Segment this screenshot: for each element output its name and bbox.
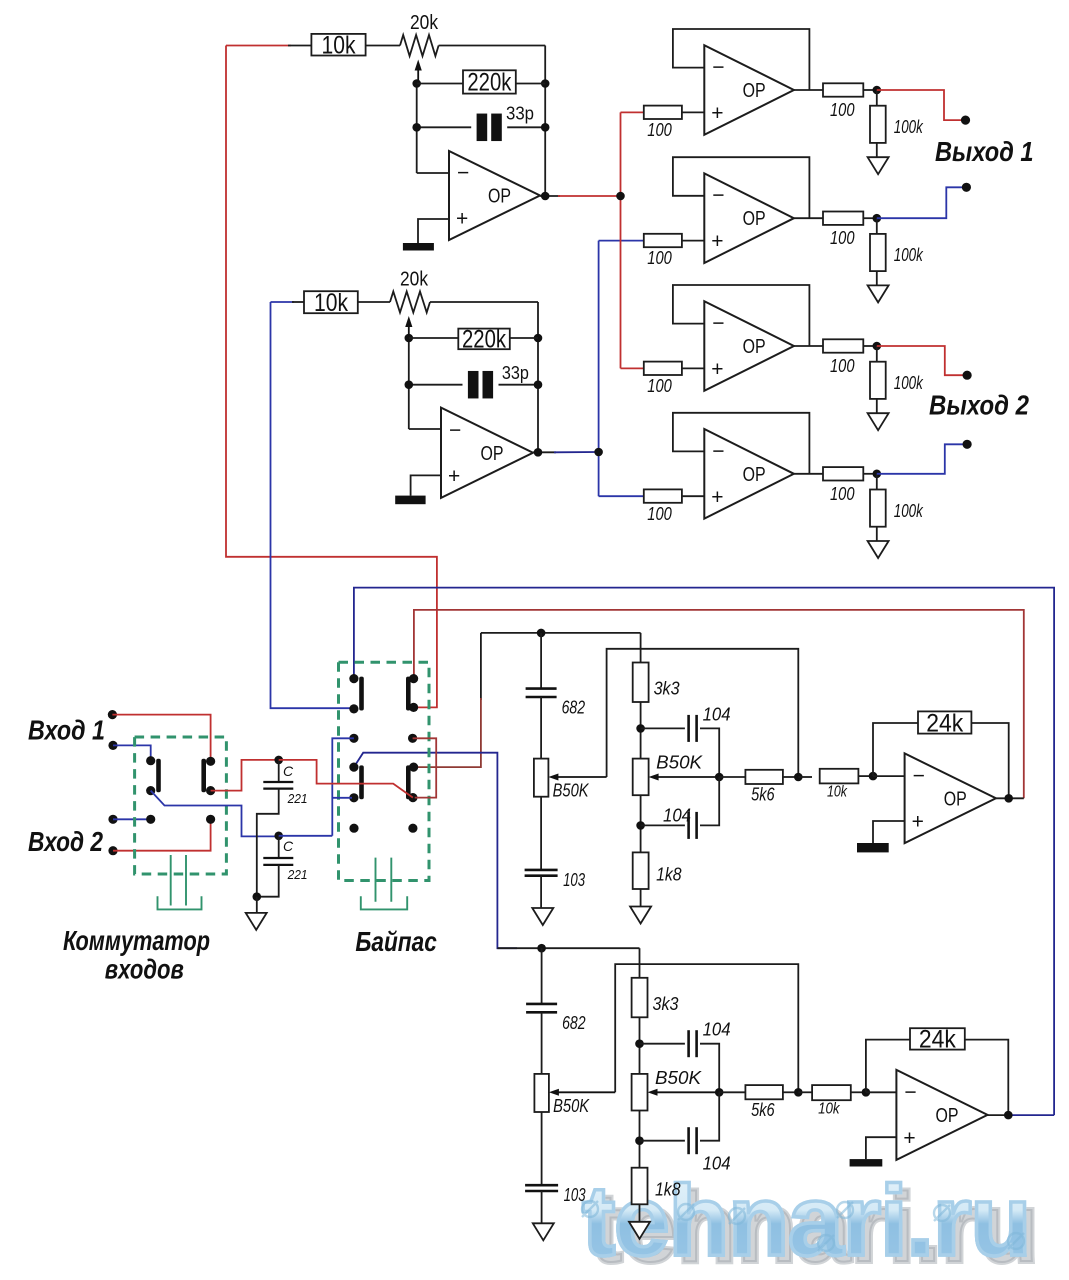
svg-text:5k6: 5k6 [751, 1100, 775, 1120]
wire EQ1 to 3k3 [640, 633, 642, 663]
svg-text:+: + [711, 486, 723, 509]
wire op-amp output [540, 195, 560, 197]
svg-text:Выход 2: Выход 2 [929, 390, 1029, 421]
wire EQ2 into 682 [541, 948, 543, 1004]
capacitor C 221 (ch2 coupling) [263, 858, 293, 865]
wire into C1 [278, 760, 280, 782]
resistor 100 (input of U6 buffer out2-blue) [644, 489, 682, 502]
bypass contact TR-bot [409, 703, 418, 712]
op-amp ch2 gain stage [441, 408, 533, 498]
capacitor 104 bottom (EQ1) [689, 812, 697, 839]
wire to 100k load [876, 474, 878, 490]
svg-text:B50K: B50K [655, 1067, 703, 1088]
svg-text:682: 682 [562, 1013, 586, 1033]
svg-text:104: 104 [703, 1020, 731, 1040]
wire 24k to output EQ2 [965, 1040, 1009, 1116]
bypass contact BL-top [349, 763, 358, 772]
wire 100k to ground [876, 399, 878, 413]
potentiometer B50K low (EQ2) [534, 1074, 549, 1112]
wire to output terminal (U6 buffer out2-blue) [877, 444, 967, 474]
ground (U5 buffer out2-red) [868, 413, 889, 430]
op-amp EQ1 [905, 753, 996, 843]
svg-text:B50K: B50K [553, 1095, 590, 1116]
node 33p right ch2 [534, 380, 543, 389]
wire to op-amp EQ2 [866, 1091, 897, 1093]
svg-text:C: C [283, 838, 294, 854]
wire resistor to + input [682, 495, 704, 497]
selector mechanical link symbol [158, 855, 202, 909]
wire EQ2 output [988, 1114, 1011, 1116]
resistor 10k (ch1 input) [311, 34, 365, 56]
bypass contact TL-top [349, 674, 358, 683]
wire 10k to inverting node EQ1 [858, 775, 873, 777]
wire ch1 input to R 10k [226, 45, 291, 47]
wire C1 to ground node [257, 789, 279, 897]
wire EQ1 103 to ground [540, 876, 542, 908]
output terminal (U3 buffer out1-red) [961, 116, 970, 125]
feedback wire (U3 buffer out1-red) [673, 29, 810, 90]
wire to 100k load [876, 218, 878, 234]
wire EQ2 output return (navy, top of bypass to far right column) [354, 588, 1054, 1116]
wire ch2 output (blue) [554, 451, 599, 453]
wire red distribution column (ch1 out to buffers 1,3) [620, 112, 622, 368]
svg-text:B50K: B50K [656, 752, 704, 773]
wire R 10k to pot ch2 [358, 301, 390, 303]
wire buffer output [794, 345, 823, 347]
svg-text:Вход 2: Вход 2 [28, 826, 103, 857]
bypass switch bar top-left [359, 677, 364, 711]
node EQ1 output [1004, 794, 1013, 803]
wire to ground [256, 897, 258, 913]
ground (coupling caps) [246, 913, 267, 930]
resistor 220k (ch2 feedback) [458, 329, 510, 350]
op-amp ch1 gain stage [449, 151, 540, 240]
svg-text:OP: OP [944, 788, 967, 810]
ground (EQ2 mid chain) [629, 1222, 650, 1239]
wire 220k to column [516, 83, 545, 85]
wire 5k6 to node [783, 776, 798, 778]
node ch2 op-amp output [534, 448, 543, 457]
svg-text:100k: 100k [894, 501, 924, 521]
svg-text:100k: 100k [894, 245, 924, 265]
wire input2 red to selector [113, 822, 211, 851]
svg-text:−: − [457, 162, 469, 185]
resistor 24k (EQ1 feedback) [918, 711, 971, 733]
wire to op-amp inverting input [417, 172, 449, 174]
wire 100k to ground [876, 271, 878, 285]
wire bypass mid-left stub (blue) [332, 738, 354, 836]
svg-text:221: 221 [287, 792, 308, 806]
svg-text:−: − [712, 312, 724, 335]
svg-text:+: + [448, 465, 460, 488]
node EQ2 output [1004, 1111, 1013, 1120]
svg-text:24k: 24k [926, 709, 963, 737]
wire to op-amp inverting input ch2 [409, 428, 441, 430]
svg-text:Коммутатор: Коммутатор [63, 925, 210, 956]
wire 10k to inverting node EQ2 [851, 1091, 866, 1093]
svg-text:104: 104 [703, 1154, 731, 1174]
capacitor 682 (EQ2) [526, 1004, 557, 1012]
node EQ2 mid wiper [715, 1088, 724, 1097]
wire EQ2 top node row [497, 947, 639, 949]
wire to 100k load [876, 90, 878, 106]
wire feed into buffer input resistor (U4 buffer out1-blue) [599, 240, 644, 242]
wire EQ2 + input to ground [866, 1137, 897, 1159]
wire EQ2 103 to ground [541, 1191, 543, 1223]
wire bypass mid-right stub (red) [413, 738, 437, 797]
input terminal 1b [108, 741, 117, 750]
node 33p left ch2 [405, 380, 414, 389]
node wiper/220k left ch2 [405, 334, 414, 343]
wire EQ2 low-pot wiper feed [615, 964, 798, 1092]
op-amp U3 buffer out1-red [704, 45, 794, 135]
capacitor 104 bottom (EQ2) [689, 1127, 697, 1154]
svg-text:OP: OP [743, 208, 766, 230]
node EQ2 pot/104/1k8 [635, 1136, 644, 1145]
wire EQ1 into 682 [540, 633, 542, 689]
wire op-amp + input to ground [418, 219, 449, 243]
node 220k right ch2 [534, 334, 543, 343]
wire EQ2 to 3k3 [639, 948, 641, 978]
svg-text:220k: 220k [462, 326, 506, 354]
svg-text:OP: OP [935, 1105, 958, 1127]
svg-text:−: − [712, 440, 724, 463]
svg-text:C: C [283, 763, 294, 779]
node output of U4 buffer out1-blue [873, 214, 882, 223]
resistor 100k (load of U3 buffer out1-red) [870, 106, 886, 143]
wire EQ2 bottom 104 branch [639, 1111, 641, 1168]
svg-text:входов: входов [105, 954, 184, 985]
wire selector red output [211, 760, 279, 791]
wire to op-amp EQ1 [873, 775, 905, 777]
bypass contact TR-top [409, 674, 418, 683]
svg-text:Вход 1: Вход 1 [28, 715, 105, 746]
ground bar (EQ1 op-amp +) [857, 843, 889, 852]
wire EQ1 low-pot wiper feed [607, 649, 799, 777]
potentiometer 20k (ch1 gain) [400, 35, 439, 56]
wire to 220k [417, 83, 463, 85]
resistor 100 (output of U3 buffer out1-red) [823, 83, 863, 96]
svg-text:104: 104 [703, 704, 731, 724]
svg-text:20k: 20k [410, 12, 439, 34]
wire ch1 output (red) [558, 195, 621, 197]
wire buffer output [794, 217, 823, 219]
wire EQ2 682 to pot [541, 1012, 543, 1074]
wire node to 10k (EQ2) [798, 1091, 812, 1093]
wire wiper column ch1 [416, 84, 418, 174]
input terminal 2a [108, 815, 117, 824]
node wiper/220k left [412, 79, 421, 88]
wire pot to feedback column [439, 45, 546, 47]
node EQ1 5k6/10k [794, 773, 803, 782]
node EQ1 3k3/104 [636, 724, 645, 733]
wire feed into buffer input resistor (U6 buffer out2-blue) [599, 495, 644, 497]
capacitor 103 (EQ1) [525, 870, 558, 876]
wire input2 blue to selector [113, 818, 148, 820]
node EQ1 pot/104/1k8 [636, 821, 645, 830]
wire resistor to + input [682, 240, 704, 242]
watermark slashed-circle marks [582, 1201, 598, 1217]
node EQ1 input [537, 629, 546, 638]
selector contact R-top [206, 757, 215, 766]
svg-text:OP: OP [743, 80, 766, 102]
wiper arrow B50K mid (EQ1) [649, 774, 659, 781]
wire EQ2 input feed (blue, from bypass lower-left switch to EQ2 node) [354, 753, 517, 949]
wire 220k to column ch2 [510, 337, 538, 339]
svg-text:Выход 1: Выход 1 [935, 136, 1034, 167]
resistor 10k (EQ2 op-amp input) [812, 1085, 851, 1100]
svg-text:33p: 33p [506, 104, 534, 124]
bypass contact bottom-right-spare [408, 824, 417, 833]
capacitor 103 (EQ2) [525, 1185, 558, 1191]
selector contact R-mid [206, 786, 215, 795]
node EQ2 3k3/104 [635, 1039, 644, 1048]
wire EQ1 + input to ground [873, 821, 905, 843]
wire to 33p [417, 126, 472, 128]
svg-text:103: 103 [563, 870, 585, 890]
selector contact R-bot [206, 815, 215, 824]
wire wiper column ch2 [408, 338, 410, 429]
svg-text:100: 100 [647, 248, 672, 268]
svg-text:100: 100 [647, 504, 672, 524]
wire node to 10k (EQ1) [798, 776, 812, 778]
node ch1 out distribution [616, 192, 625, 201]
resistor 100 (output of U4 buffer out1-blue) [823, 212, 863, 225]
svg-text:10k: 10k [322, 32, 356, 60]
wire 33p to column [507, 126, 545, 128]
resistor 100 (input of U3 buffer out1-red) [644, 106, 682, 119]
svg-text:+: + [711, 358, 723, 381]
wire EQ1 wiper to 5k6 [719, 776, 745, 778]
bypass contact BR-bot [408, 793, 417, 802]
svg-text:3k3: 3k3 [653, 994, 679, 1014]
svg-text:+: + [711, 230, 723, 253]
wire EQ1 bottom 104 branch [640, 795, 642, 852]
op-amp U6 buffer out2-blue [704, 429, 794, 519]
op-amp EQ2 [896, 1070, 987, 1160]
node C2 top [274, 832, 283, 841]
svg-text:+: + [456, 208, 468, 231]
resistor 100 (input of U5 buffer out2-red) [644, 362, 682, 375]
wire 100k to ground [876, 143, 878, 157]
ground bar (ch2 op-amp +) [395, 496, 425, 505]
selector switch bar right [201, 759, 206, 793]
input terminal 2b [108, 846, 117, 855]
ground (U6 buffer out2-blue) [868, 541, 889, 558]
wiper arrow B50K low (EQ2) [549, 1089, 559, 1096]
wire EQ1 3k3 to mid pot [640, 702, 642, 759]
svg-text:33p: 33p [502, 363, 529, 383]
bypass contact bottom-left-spare [349, 824, 358, 833]
wire feedback column ch2 [537, 302, 539, 452]
watermark tehnari.ru [582, 1164, 1030, 1279]
capacitor C 221 (ch1 coupling) [263, 782, 293, 789]
wire input1 blue to selector [113, 745, 151, 758]
node 33p right [541, 123, 550, 132]
feedback wire (U4 buffer out1-blue) [673, 157, 810, 218]
wire 1k8 to ground (EQ2) [639, 1204, 641, 1223]
wire EQ1 pot to 103 [540, 797, 542, 870]
wire EQ1 top 104 branch [641, 727, 685, 729]
svg-text:−: − [904, 1081, 916, 1104]
resistor 10k (ch2 input) [304, 291, 358, 313]
svg-text:221: 221 [287, 868, 308, 882]
wire 1k8 to ground (EQ1) [640, 889, 642, 908]
ground (U3 buffer out1-red) [868, 157, 889, 174]
node caps ground junction [252, 892, 261, 901]
svg-text:104: 104 [663, 805, 691, 825]
wire 33p to column ch2 [499, 384, 539, 386]
resistor 100 (output of U5 buffer out2-red) [823, 339, 863, 352]
resistor 100k (load of U6 buffer out2-blue) [870, 490, 886, 527]
bypass switch bar bottom-right [406, 765, 411, 799]
resistor 1k8 (EQ1) [633, 852, 649, 889]
node EQ2 5k6/10k [794, 1088, 803, 1097]
feedback wire (U5 buffer out2-red) [673, 285, 810, 346]
bypass switch bar bottom-left [359, 765, 364, 799]
wire to output terminal (U5 buffer out2-red) [877, 346, 967, 375]
svg-text:220k: 220k [467, 69, 511, 97]
ground bar (EQ2 op-amp +) [850, 1159, 883, 1166]
wire into C2 [278, 836, 280, 858]
potentiometer 20k (ch2 gain) [390, 292, 430, 313]
svg-text:Байпас: Байпас [355, 926, 437, 957]
svg-text:100: 100 [830, 228, 855, 248]
wiper arrow B50K low (EQ1) [548, 774, 558, 781]
wire buffer output [794, 89, 823, 91]
ground (EQ2 low chain) [533, 1223, 554, 1240]
wire feed into buffer input resistor (U5 buffer out2-red) [621, 367, 644, 369]
pot 20k ch2 wiper arrow [405, 316, 412, 327]
op-amp U4 buffer out1-blue [704, 173, 794, 263]
selector contact L-mid [146, 786, 155, 795]
bypass mechanical link symbol [361, 858, 407, 910]
svg-text:+: + [903, 1127, 915, 1150]
wire 24k to output EQ1 [971, 723, 1008, 798]
wire EQ2 top 104 branch [640, 1043, 685, 1045]
svg-text:100: 100 [830, 100, 855, 120]
resistor 100k (load of U4 buffer out1-blue) [870, 234, 886, 271]
wire into R 10k ch2 [292, 301, 304, 303]
wire EQ2 output to return column [1008, 1114, 1054, 1116]
wire pot to feedback column ch2 [430, 301, 538, 303]
ground bar (ch1 op-amp +) [403, 243, 434, 251]
wire EQ2 feedback loop [866, 1040, 910, 1093]
svg-text:24k: 24k [919, 1026, 956, 1054]
svg-text:−: − [449, 419, 461, 442]
wire EQ1 output [996, 797, 1024, 799]
bypass contact BL-bot [349, 793, 358, 802]
wire 100k to ground [876, 527, 878, 541]
wire selector blue output [151, 791, 279, 837]
bypass contact mid-left [349, 734, 358, 743]
wire resistor to + input [682, 111, 704, 113]
node ch2 out distribution [594, 448, 603, 457]
wire buffer output [794, 473, 823, 475]
node C1 top [274, 756, 283, 765]
wire R 10k to pot 20k [366, 45, 400, 47]
resistor 220k (ch1 feedback) [463, 70, 516, 93]
svg-text:OP: OP [481, 443, 504, 465]
wire blue distribution column (ch2 out to buffers 2,4) [598, 241, 600, 497]
wire C2 to ground node [257, 865, 279, 897]
capacitor 33p (ch1) [477, 114, 502, 142]
resistor 10k (EQ1 op-amp input) [820, 769, 859, 784]
ground (EQ1 mid chain) [630, 907, 651, 924]
bypass contact mid-right [408, 734, 417, 743]
wire to output node [863, 473, 877, 475]
node output of U5 buffer out2-red [873, 342, 882, 351]
output terminal (U6 buffer out2-blue) [963, 440, 972, 449]
wire to output terminal (U3 buffer out1-red) [877, 90, 966, 120]
wire resistor to + input [682, 367, 704, 369]
svg-text:682: 682 [562, 698, 586, 718]
wiper arrow B50K mid (EQ2) [648, 1089, 658, 1096]
svg-text:−: − [913, 764, 925, 787]
pot 20k wiper arrow [415, 60, 422, 71]
node output of U3 buffer out1-red [873, 86, 882, 95]
svg-text:−: − [712, 56, 724, 79]
svg-text:100: 100 [830, 484, 855, 504]
wire to 220k ch2 [409, 337, 459, 339]
svg-text:10k: 10k [314, 289, 348, 317]
ground (U4 buffer out1-blue) [868, 285, 889, 302]
resistor 100 (input of U4 buffer out1-blue) [644, 234, 682, 247]
potentiometer B50K mid (EQ2) [632, 1074, 648, 1111]
resistor 100 (output of U6 buffer out2-blue) [823, 467, 863, 480]
svg-text:100: 100 [647, 120, 672, 140]
svg-text:5k6: 5k6 [751, 785, 775, 805]
svg-text:OP: OP [488, 186, 511, 208]
potentiometer B50K low (EQ1) [534, 759, 549, 797]
svg-text:3k3: 3k3 [654, 679, 680, 699]
svg-text:1k8: 1k8 [655, 1180, 681, 1200]
node 220k right [541, 79, 550, 88]
wire EQ2 pot to 103 [541, 1112, 543, 1185]
bypass dashed box (Байпас) [339, 662, 430, 880]
svg-text:10k: 10k [818, 1101, 840, 1118]
svg-text:10k: 10k [827, 784, 848, 801]
svg-text:B50K: B50K [553, 780, 590, 801]
svg-text:−: − [712, 184, 724, 207]
bypass switch bar top-right [406, 677, 411, 711]
output terminal (U5 buffer out2-red) [963, 371, 972, 380]
wire ch2 input to R 10k [271, 301, 295, 303]
selector switch bar left [156, 759, 161, 793]
node EQ1 inverting input [869, 772, 878, 781]
wire EQ2 wiper to 5k6 [719, 1091, 745, 1093]
svg-text:100: 100 [830, 356, 855, 376]
svg-text:103: 103 [564, 1185, 586, 1205]
capacitor 682 (EQ1) [526, 689, 557, 697]
wire to output node [863, 217, 877, 219]
bypass contact BR-top [409, 763, 418, 772]
wire op-amp + to ground ch2 [411, 475, 441, 495]
node EQ2 input [537, 944, 546, 953]
output terminal (U4 buffer out1-blue) [962, 183, 971, 192]
wire feed into buffer input resistor (U3 buffer out1-red) [621, 111, 644, 113]
node output of U6 buffer out2-blue [873, 470, 882, 479]
svg-text:1k8: 1k8 [656, 864, 682, 884]
input selector dashed box (Коммутатор входов) [135, 737, 227, 874]
resistor 1k8 (EQ2) [632, 1168, 648, 1205]
resistor 5k6 (EQ1) [745, 770, 783, 784]
svg-text:OP: OP [743, 464, 766, 486]
watermark shadow [590, 1171, 1038, 1280]
capacitor 104 top (EQ2) [689, 1030, 697, 1057]
wire EQ1 feedback loop [873, 723, 918, 776]
svg-text:100k: 100k [894, 373, 924, 393]
